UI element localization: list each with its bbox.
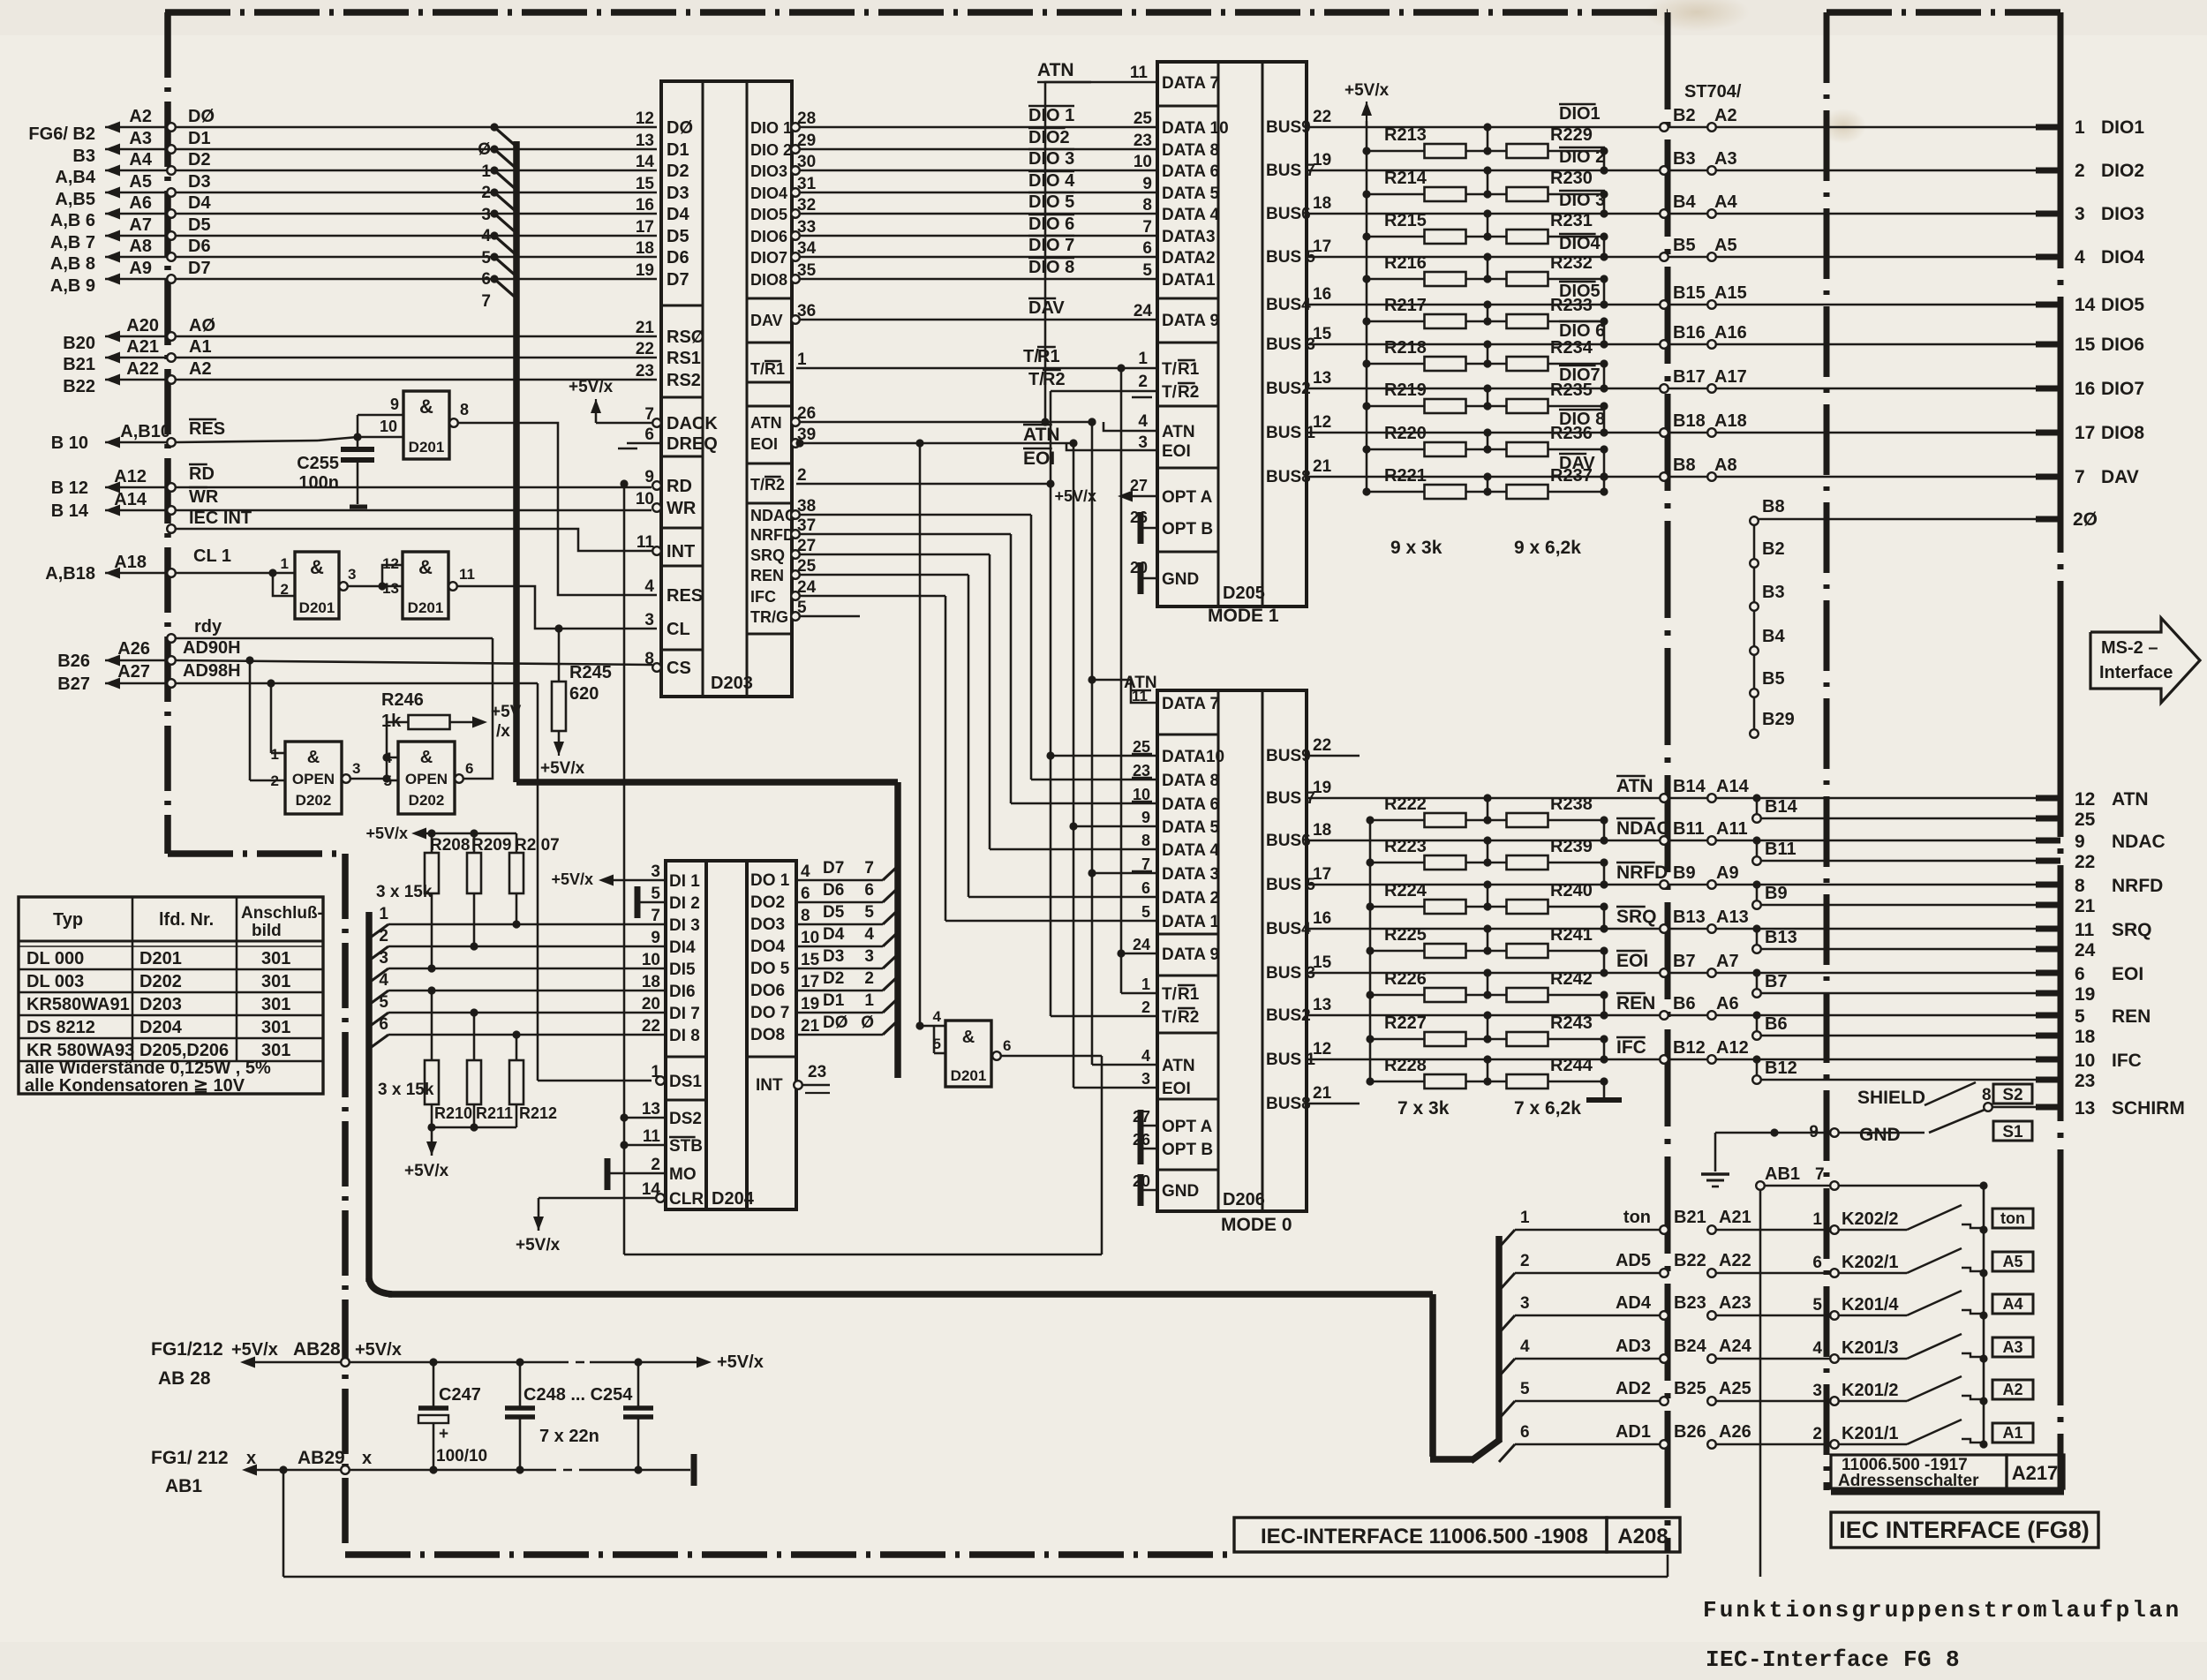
svg-text:19: 19 (636, 261, 654, 280)
svg-text:FG1/ 212: FG1/ 212 (151, 1448, 229, 1468)
resistor R207 15k (516, 833, 518, 853)
svg-text:A9: A9 (1716, 863, 1739, 883)
svg-text:1: 1 (1520, 1209, 1530, 1227)
svg-text:R232: R232 (1550, 253, 1593, 273)
wire x rail (350, 1469, 433, 1472)
svg-text:R227: R227 (1384, 1013, 1427, 1033)
wire T/R1 net D203 to D205 (796, 367, 1157, 370)
svg-text:A,B 8: A,B 8 (50, 254, 95, 274)
node A9 / A,B 9 data line D7 (105, 278, 168, 281)
svg-text:B23: B23 (1674, 1293, 1706, 1313)
wire bus net NRFD D206 to IEC connector (1307, 884, 2036, 886)
svg-text:12: 12 (1313, 1040, 1331, 1058)
svg-text:R2: R2 (1178, 383, 1199, 402)
svg-text:DATA 7: DATA 7 (1162, 695, 1219, 713)
svg-text:R220: R220 (1384, 424, 1427, 443)
svg-text:17: 17 (1313, 237, 1331, 256)
svg-text:D4: D4 (188, 193, 211, 213)
svg-text:DATA2: DATA2 (1162, 249, 1216, 267)
svg-text:A7: A7 (129, 215, 152, 235)
svg-text:22: 22 (2075, 852, 2095, 872)
svg-text:SCHIRM: SCHIRM (2112, 1098, 2185, 1119)
IC D203 pin circles (DACK, RD, WR, INT, CS) (652, 418, 661, 427)
resistor R213 3k (1362, 147, 1370, 154)
svg-text:Funktionsgruppenstromlaufplan: Funktionsgruppenstromlaufplan (1703, 1597, 2181, 1623)
svg-text:GND: GND (1162, 1182, 1199, 1201)
svg-text:B8: B8 (1673, 456, 1696, 475)
svg-text:R213: R213 (1384, 125, 1427, 145)
svg-text:8: 8 (801, 907, 810, 925)
svg-text:16: 16 (2075, 379, 2095, 399)
svg-text:12: 12 (382, 555, 399, 572)
svg-text:DREQ: DREQ (667, 434, 718, 454)
svg-text:D204: D204 (712, 1189, 755, 1209)
wire DIO7 net D203 to D205 (800, 256, 1157, 259)
svg-text:R2: R2 (765, 476, 785, 493)
wire EOI vertical to D206 pin3 (branch DATA5) (1073, 443, 1075, 1088)
svg-text:24: 24 (2075, 940, 2096, 961)
svg-text:B9: B9 (1765, 884, 1788, 903)
svg-text:D7: D7 (667, 270, 689, 290)
bus address bundle horizontal (thick) (388, 1291, 1433, 1298)
pin stub 5 REN on FG8 panel (2036, 1013, 2060, 1019)
svg-text:19: 19 (1313, 151, 1331, 170)
svg-text:R219: R219 (1384, 380, 1427, 400)
resistor R230 6.2k (1465, 193, 1507, 196)
svg-text:+: + (439, 1425, 448, 1443)
capacitor C254 (637, 1362, 640, 1406)
wire GND to ground symbol (1715, 1132, 1831, 1134)
svg-text:D1: D1 (823, 991, 845, 1010)
svg-text:S1: S1 (2002, 1123, 2023, 1141)
svg-text:8: 8 (1982, 1086, 1992, 1104)
svg-text:R209: R209 (471, 836, 511, 855)
wire D203 RES pin from gate D201 output 8 (458, 423, 657, 595)
resistor R236 6.2k (1465, 448, 1507, 451)
node D201 output 3 (339, 582, 348, 591)
wire bus net DAV D205 to IEC connector (1307, 476, 2036, 478)
svg-text:A23: A23 (1719, 1293, 1751, 1313)
wire junctions row R218 (1483, 359, 1491, 367)
svg-text:11: 11 (636, 533, 655, 552)
bus thick horizontal to D204 (516, 779, 898, 786)
wire bus net IFC D206 to IEC connector (1307, 1058, 2036, 1061)
svg-text:A27: A27 (117, 662, 150, 682)
resistor R220 3k (1362, 445, 1370, 453)
svg-text:6: 6 (1003, 1037, 1011, 1054)
svg-text:11: 11 (1130, 64, 1149, 82)
svg-text:B3: B3 (1762, 583, 1785, 602)
svg-text:R214: R214 (1384, 169, 1427, 188)
border FG8 panel top (1827, 9, 1892, 16)
svg-text:A2: A2 (2002, 1381, 2022, 1398)
svg-text:15: 15 (1313, 325, 1332, 343)
svg-text:A,B4: A,B4 (55, 168, 95, 187)
svg-text:18: 18 (636, 239, 654, 258)
wire DØ from D204 DO8 to data bus (796, 1034, 883, 1036)
wire R208 to DI5 / R209 to DI4 / R207 to DI3 (431, 893, 433, 968)
title box 11006.500-1917 Adressenschalter A217 (1831, 1455, 2007, 1488)
svg-text:DIO 5: DIO 5 (1028, 192, 1074, 212)
svg-text:rdy: rdy (194, 617, 222, 637)
node D201 pin8 output (449, 418, 458, 427)
wire bus net ATN D206 to IEC connector (1307, 797, 2036, 800)
svg-text:3 x 15k: 3 x 15k (376, 883, 433, 901)
svg-text:A,B10: A,B10 (120, 422, 170, 441)
svg-text:2: 2 (864, 969, 874, 988)
wire TR/G stub (800, 615, 860, 618)
svg-text:A22: A22 (1719, 1251, 1751, 1270)
svg-text:16: 16 (1313, 285, 1331, 304)
svg-text:5: 5 (379, 993, 388, 1012)
border FG8 panel bottom (1831, 1489, 2064, 1495)
power +5V /x arrow after R246 (450, 721, 473, 724)
svg-text:A15: A15 (1714, 283, 1747, 303)
wire ATN riser to D205 pin11 (1045, 82, 1157, 422)
wire D202 out3 to pins 4/5 (350, 778, 387, 780)
svg-text:6: 6 (1141, 879, 1150, 897)
svg-text:DIO2: DIO2 (2101, 161, 2144, 181)
svg-text:Ø: Ø (861, 1013, 874, 1032)
svg-text:21: 21 (1313, 457, 1332, 476)
svg-text:6: 6 (465, 760, 473, 777)
IC D203 right pin circles (791, 123, 800, 132)
svg-text:AD4: AD4 (1616, 1293, 1652, 1313)
svg-text:DATA1: DATA1 (1162, 271, 1216, 290)
wire D1 to D203 (176, 148, 657, 151)
node D201 output 11 (448, 582, 457, 591)
resistor R242 6.2k (1465, 994, 1507, 997)
svg-text:5: 5 (864, 903, 874, 922)
resistor R235 6.2k (1465, 405, 1507, 408)
svg-text:Anschluß-: Anschluß- (241, 904, 323, 923)
svg-text:OPT A: OPT A (1162, 488, 1213, 507)
svg-text:DATA 10: DATA 10 (1162, 119, 1229, 138)
wire D3 to D203 (176, 192, 657, 194)
resistor R239 6.2k (1465, 862, 1507, 864)
svg-text:6: 6 (1812, 1254, 1822, 1272)
node A22 / B22 address line A2 (105, 379, 168, 381)
svg-text:B4: B4 (1673, 192, 1696, 212)
svg-text:22: 22 (636, 340, 654, 358)
svg-text:B5: B5 (1673, 236, 1696, 255)
svg-text:IFC: IFC (750, 588, 776, 606)
svg-text:INT: INT (667, 542, 695, 561)
svg-text:14: 14 (636, 153, 655, 171)
svg-text:A,B 9: A,B 9 (50, 276, 95, 296)
svg-text:TR/G: TR/G (750, 608, 788, 626)
svg-text:6: 6 (1520, 1423, 1530, 1442)
svg-text:13: 13 (642, 1100, 660, 1119)
svg-text:RES: RES (189, 419, 225, 439)
svg-text:10: 10 (2075, 1051, 2095, 1071)
svg-text:OPEN: OPEN (292, 771, 335, 787)
svg-text:A12: A12 (1716, 1038, 1749, 1058)
svg-text:NRFD: NRFD (750, 526, 795, 544)
svg-text:3: 3 (1812, 1382, 1822, 1400)
svg-text:B12: B12 (1765, 1058, 1797, 1078)
svg-text:21: 21 (2075, 896, 2096, 916)
svg-text:23: 23 (2075, 1071, 2095, 1091)
wire D6 to D203 (176, 256, 657, 259)
svg-text:10: 10 (801, 929, 819, 947)
svg-text:A25: A25 (1719, 1379, 1751, 1398)
svg-text:DL 000: DL 000 (26, 949, 84, 968)
svg-text:13: 13 (2075, 1098, 2095, 1119)
svg-text:DIO1: DIO1 (2101, 117, 2144, 138)
wire NDAC to D206 DATA8 (800, 514, 1031, 516)
svg-text:4: 4 (801, 863, 810, 881)
svg-text:DI4: DI4 (669, 938, 696, 957)
svg-text:T/: T/ (750, 360, 765, 378)
svg-text:DI 2: DI 2 (669, 894, 700, 913)
IC D203 outline (661, 81, 792, 697)
svg-text:DØ: DØ (667, 118, 693, 138)
svg-text:AB1: AB1 (165, 1476, 202, 1496)
wire second contact B12 pin 23 (1752, 1055, 1760, 1063)
svg-text:DIO7: DIO7 (750, 249, 787, 267)
resistor R221 3k (1362, 487, 1370, 495)
svg-text:IEC INTERFACE (FG8): IEC INTERFACE (FG8) (1839, 1517, 2090, 1543)
svg-text:AB1: AB1 (1765, 1164, 1800, 1184)
svg-text:R246: R246 (381, 690, 424, 710)
svg-text:A,B5: A,B5 (55, 190, 95, 209)
svg-text:2: 2 (1141, 998, 1150, 1016)
svg-text:D2: D2 (188, 150, 211, 170)
svg-text:100/10: 100/10 (436, 1447, 487, 1465)
svg-text:BUS9: BUS9 (1266, 747, 1311, 765)
svg-text:DATA 8: DATA 8 (1162, 141, 1219, 160)
svg-text:DATA 5: DATA 5 (1162, 185, 1220, 203)
node D201 output 6 (near D204) (992, 1051, 1001, 1060)
border main frame left lower (342, 854, 349, 919)
svg-text:BUS8: BUS8 (1266, 468, 1311, 486)
svg-text:21: 21 (636, 319, 655, 337)
pin stub 9 NDAC on FG8 panel (2036, 838, 2060, 844)
resistor R232 6.2k (1465, 278, 1507, 281)
svg-text:ton: ton (2000, 1209, 2025, 1227)
svg-text:D201: D201 (139, 949, 182, 968)
svg-text:CS: CS (667, 659, 691, 678)
svg-text:19: 19 (1313, 779, 1331, 797)
svg-text:B 10: B 10 (51, 433, 88, 453)
svg-text:K201/4: K201/4 (1842, 1295, 1899, 1315)
wire CLR pull-up +5V/x (539, 1197, 656, 1200)
border ST704 interface line (vertical dash-dot) (1665, 12, 1671, 109)
svg-text:DIO6: DIO6 (750, 228, 787, 245)
svg-text:ton: ton (1623, 1208, 1651, 1227)
svg-text:A12: A12 (114, 467, 147, 486)
svg-text:x: x (362, 1449, 372, 1468)
svg-text:AD2: AD2 (1616, 1379, 1651, 1398)
svg-text:MODE 1: MODE 1 (1208, 606, 1279, 626)
svg-text:4: 4 (864, 925, 874, 944)
svg-text:B3: B3 (72, 147, 95, 166)
svg-text:R230: R230 (1550, 169, 1593, 188)
svg-text:7 x 6,2k: 7 x 6,2k (1514, 1098, 1581, 1119)
IC D206 OPT B tie bar (1138, 1133, 1144, 1164)
svg-text:T/: T/ (1162, 1008, 1178, 1027)
pin stub 3 DIO3 on FG8 panel (2036, 211, 2060, 217)
svg-text:T/: T/ (1162, 383, 1178, 402)
svg-text:T/: T/ (750, 476, 765, 493)
svg-text:4: 4 (933, 1008, 942, 1025)
svg-text:BUS6: BUS6 (1266, 832, 1311, 850)
svg-text:7: 7 (1142, 218, 1152, 237)
resistor R209 15k (473, 833, 476, 853)
title box IEC INTERFACE (FG8) (1831, 1512, 2098, 1548)
svg-text:DIO6: DIO6 (2101, 335, 2144, 355)
svg-text:24: 24 (1133, 936, 1150, 953)
svg-text:9: 9 (1141, 809, 1150, 826)
svg-text:13: 13 (382, 580, 399, 597)
node B12 / A12 RD line (105, 486, 168, 489)
wire DIO2 net D203 to D205 (800, 148, 1157, 151)
svg-text:A4: A4 (129, 150, 152, 170)
svg-text:16: 16 (636, 196, 654, 215)
svg-text:6: 6 (644, 426, 654, 444)
svg-text:B27: B27 (57, 674, 90, 694)
svg-text:DATA 9: DATA 9 (1162, 945, 1219, 964)
svg-text:17: 17 (801, 973, 819, 991)
svg-text:IEC INT: IEC INT (189, 509, 252, 528)
wire rdy net from D202 output 6 (463, 638, 493, 779)
node B27 / A27 AD98H (105, 682, 168, 685)
node A21 / B21 address line A1 (105, 357, 168, 359)
svg-text:D203: D203 (711, 674, 753, 693)
svg-text:A8: A8 (129, 237, 152, 256)
svg-text:&: & (962, 1028, 975, 1047)
svg-text:A2: A2 (129, 107, 152, 126)
svg-text:8: 8 (2075, 876, 2085, 896)
svg-text:ATN: ATN (2112, 789, 2149, 810)
wire D5 from D204 DO3 to data bus (796, 923, 883, 926)
wire bus net DIO2 D205 to IEC connector (1307, 170, 2036, 172)
svg-text:B22: B22 (1674, 1251, 1706, 1270)
svg-text:A24: A24 (1719, 1337, 1752, 1356)
wire switch common rail (1983, 1186, 1985, 1444)
svg-text:DATA3: DATA3 (1162, 228, 1216, 246)
svg-text:D4: D4 (823, 925, 845, 944)
bus address bundle down to switches (thick) (1429, 1294, 1436, 1457)
svg-text:REN: REN (750, 567, 784, 584)
svg-text:A5: A5 (129, 172, 152, 192)
svg-text:2: 2 (1520, 1252, 1530, 1270)
svg-text:D4: D4 (667, 205, 689, 224)
node A3 / B3 data line D1 (105, 148, 168, 151)
svg-text:CLR: CLR (669, 1190, 704, 1209)
bus thick vertical to D204 DO stubs (894, 782, 901, 1078)
wire rdy from D202 gate output (176, 637, 493, 640)
svg-text:EOI: EOI (1162, 1080, 1191, 1098)
wire ATN net D203 pin26 (800, 421, 1092, 424)
svg-text:9: 9 (651, 929, 660, 947)
resistor R233 6.2k (1465, 320, 1507, 323)
svg-text:A26: A26 (117, 639, 150, 659)
svg-text:D202: D202 (139, 972, 182, 991)
resistor R234 6.2k (1465, 363, 1507, 365)
svg-text:R234: R234 (1550, 338, 1593, 358)
svg-text:R236: R236 (1550, 424, 1593, 443)
wire bus net NDAC D206 to IEC connector (1307, 840, 2036, 842)
svg-text:B6: B6 (1765, 1014, 1788, 1034)
IC D205 outline (KR580WA93 MODE 1) (1157, 62, 1307, 606)
svg-text:A17: A17 (1714, 367, 1747, 387)
pin stub 14 DIO5 on FG8 panel (2036, 302, 2060, 308)
wire D5 to D203 (176, 235, 657, 237)
svg-text:5: 5 (481, 249, 491, 267)
svg-text:D205,D206: D205,D206 (139, 1041, 229, 1060)
resistor R231 6.2k (1465, 236, 1507, 238)
svg-text:1: 1 (271, 746, 279, 763)
wire bus net DIO8 D205 to IEC connector (1307, 432, 2036, 434)
wire AB1 pin 7 row (1756, 1181, 1765, 1190)
svg-text:+5V/x: +5V/x (569, 378, 614, 396)
svg-text:+5V/x: +5V/x (355, 1340, 402, 1360)
svg-text:4: 4 (384, 750, 393, 766)
node D202 output 6 (455, 774, 463, 783)
svg-text:DI6: DI6 (669, 983, 696, 1001)
border FG8 panel left (dash-dot) (1824, 12, 1830, 83)
svg-text:DIO1: DIO1 (1559, 104, 1601, 124)
wire WR to D203 (176, 509, 652, 512)
svg-text:2: 2 (797, 466, 807, 485)
svg-text:R210: R210 (434, 1104, 472, 1122)
wire AD90H to D203 CS and D202 pin2 (176, 660, 652, 665)
svg-text:2: 2 (481, 184, 491, 202)
svg-text:alle Kondensatoren ≧ 10V: alle Kondensatoren ≧ 10V (25, 1076, 245, 1096)
svg-text:D202: D202 (409, 792, 445, 809)
wire gate3 to gate13 (348, 585, 382, 588)
svg-text:B14: B14 (1673, 777, 1706, 796)
svg-text:DATA 4: DATA 4 (1162, 206, 1220, 224)
pin stub 7 DAV on FG8 panel (2036, 474, 2060, 480)
svg-text:A13: A13 (1716, 908, 1749, 927)
IC D204 DS1 CLR pin circles (656, 1076, 665, 1085)
wire junctions row R219 (1483, 402, 1491, 410)
svg-text:5: 5 (1812, 1296, 1822, 1315)
svg-text:R235: R235 (1550, 380, 1593, 400)
svg-text:A3: A3 (2002, 1338, 2022, 1356)
svg-text:DACK: DACK (667, 414, 718, 433)
svg-text:A8: A8 (1714, 456, 1737, 475)
svg-text:6: 6 (1142, 239, 1152, 258)
wire gate11 to D203 CL (457, 586, 657, 629)
svg-text:7: 7 (1815, 1165, 1825, 1184)
wire AD98H to D202 pin1 and D204 DS1 (176, 682, 538, 685)
bus address bundle riser (thick) (1495, 1236, 1503, 1442)
svg-text:DS1: DS1 (669, 1073, 702, 1091)
resistor R226 3k (1366, 991, 1374, 998)
svg-text:23: 23 (1134, 132, 1152, 150)
resistor R224 3k (1366, 902, 1374, 910)
svg-text:D5: D5 (188, 215, 211, 235)
border main frame top (dash-dot) (165, 9, 230, 16)
svg-text:REN: REN (2112, 1006, 2151, 1027)
wire RES to C255 junction and D201 pin 10 (176, 441, 318, 442)
svg-text:4: 4 (1141, 1047, 1150, 1065)
svg-text:C248 ... C254: C248 ... C254 (524, 1385, 633, 1405)
node B14 / A14 WR line (105, 509, 168, 512)
svg-text:MS-2 –: MS-2 – (2101, 638, 2158, 658)
wire A2 to D203 RS2 (176, 379, 657, 381)
wire second contact B9 pin 21 (1752, 880, 1760, 888)
table component types (19, 897, 323, 1094)
svg-text:RES: RES (667, 586, 703, 606)
wire DIO1 net D203 to D205 (800, 126, 1157, 129)
svg-text:+5V/x: +5V/x (365, 825, 408, 842)
svg-text:B2: B2 (1673, 106, 1696, 125)
